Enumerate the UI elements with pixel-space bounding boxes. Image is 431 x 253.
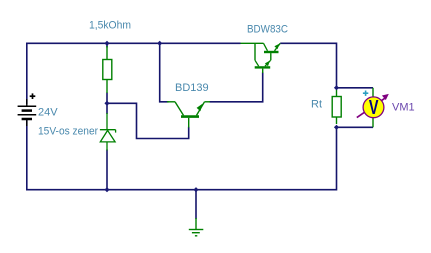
wire BD139 collector riser <box>160 43 169 102</box>
node dot zener bottom <box>104 187 109 192</box>
transistor U1 BDW83C (darlington) <box>241 43 281 73</box>
wire BD139 emitter to BDW83C base <box>210 72 263 102</box>
wire voltmeter top <box>337 87 374 89</box>
resistor Rt <box>332 90 341 124</box>
node dot top rail / R1 <box>104 41 109 46</box>
svg-text:24V: 24V <box>38 107 58 119</box>
resistor R1 1.5kOhm <box>103 46 112 93</box>
svg-text:Rt: Rt <box>311 99 322 111</box>
transistor Q1 BD139 <box>167 102 210 128</box>
voltmeter arrow tail <box>357 98 386 118</box>
ground <box>189 218 204 236</box>
wire resistor R1 bottom lead to node <box>106 93 108 104</box>
voltmeter arrow head <box>382 94 389 100</box>
wire zener bottom lead <box>106 150 108 190</box>
wire zener top lead <box>106 103 108 114</box>
wire resistor R1 branch top lead <box>106 43 108 47</box>
wire node A loop (zener node to BD139 base) <box>107 103 189 138</box>
node dot ground <box>193 187 198 192</box>
battery V1 24V <box>18 93 37 126</box>
voltmeter VM1 body <box>363 97 384 118</box>
wire voltmeter bottom <box>337 126 374 128</box>
svg-text:V: V <box>369 96 379 119</box>
voltmeter plus mark <box>363 91 368 96</box>
wire output (BDW83C emitter to right branch) <box>280 43 336 88</box>
svg-text:BD139: BD139 <box>175 82 209 94</box>
zener diode D1 <box>100 113 116 151</box>
node dot top rail / BD139 collector <box>157 41 162 46</box>
wire top rail (battery + to Darlington collector) <box>27 43 241 104</box>
svg-text:15V-os zener: 15V-os zener <box>38 126 98 138</box>
node dot Rt top <box>334 85 339 90</box>
voltmeter VM1 leads <box>372 88 374 128</box>
svg-text:BDW83C: BDW83C <box>247 24 288 36</box>
wire bottom rail <box>27 120 337 190</box>
wire ground branch <box>195 190 197 219</box>
node dot Rt bottom <box>334 125 339 130</box>
node dot zener top <box>104 101 109 106</box>
svg-text:VM1: VM1 <box>392 102 415 114</box>
svg-text:1,5kOhm: 1,5kOhm <box>89 20 131 32</box>
